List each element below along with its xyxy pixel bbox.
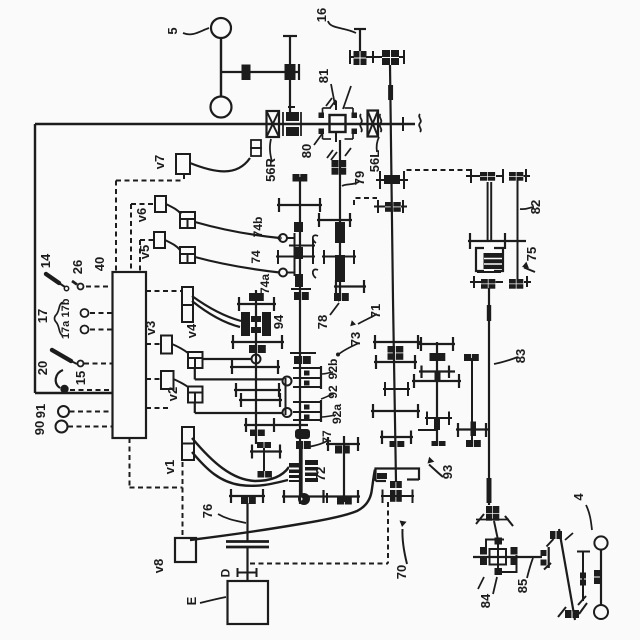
svg-text:80: 80 [299,144,314,158]
svg-text:v7: v7 [152,155,167,169]
svg-text:92b: 92b [326,359,340,380]
svg-text:92a: 92a [330,404,344,424]
svg-text:76: 76 [200,504,215,518]
svg-text:81: 81 [316,69,331,83]
svg-text:26: 26 [70,260,85,274]
svg-text:v1: v1 [162,460,177,474]
svg-text:74a: 74a [258,274,272,294]
svg-text:56R: 56R [263,157,278,181]
svg-text:74: 74 [249,250,263,264]
svg-text:E: E [184,596,199,605]
svg-text:14: 14 [38,253,53,268]
svg-text:17a: 17a [60,320,72,339]
svg-text:71: 71 [368,304,383,318]
svg-text:74b: 74b [251,217,265,238]
svg-text:90: 90 [32,421,47,435]
svg-text:72: 72 [313,467,328,481]
svg-text:70: 70 [394,565,409,579]
svg-text:75: 75 [524,247,539,261]
svg-text:v2: v2 [165,387,180,401]
svg-text:17: 17 [35,309,50,323]
svg-text:16: 16 [314,8,329,22]
svg-text:56L: 56L [367,150,382,172]
svg-text:4: 4 [571,493,586,501]
svg-text:v8: v8 [151,559,166,573]
svg-text:v6: v6 [134,208,149,222]
svg-text:84: 84 [478,593,493,608]
svg-text:40: 40 [92,257,107,271]
svg-text:D: D [219,568,233,577]
svg-text:85: 85 [515,579,530,593]
svg-text:17b: 17b [60,298,72,317]
svg-text:v4: v4 [184,323,199,338]
svg-text:5: 5 [165,27,180,34]
svg-text:20: 20 [35,361,50,375]
svg-text:94: 94 [271,314,286,329]
svg-text:15: 15 [73,371,88,385]
svg-text:91: 91 [33,404,48,418]
svg-text:83: 83 [513,349,528,363]
svg-text:78: 78 [315,315,330,329]
